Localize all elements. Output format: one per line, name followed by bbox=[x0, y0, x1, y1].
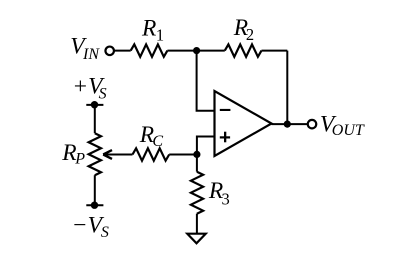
svg-text:3: 3 bbox=[222, 190, 230, 209]
svg-text:C: C bbox=[152, 133, 163, 150]
svg-text:S: S bbox=[101, 224, 109, 241]
svg-text:1: 1 bbox=[156, 26, 164, 45]
svg-text:IN: IN bbox=[82, 46, 100, 63]
svg-text:R: R bbox=[61, 140, 76, 166]
svg-text:R: R bbox=[141, 15, 156, 41]
svg-text:P: P bbox=[74, 151, 85, 168]
svg-text:2: 2 bbox=[246, 25, 254, 44]
svg-text:S: S bbox=[99, 86, 107, 103]
svg-text:OUT: OUT bbox=[332, 122, 365, 139]
svg-text:−V: −V bbox=[72, 212, 105, 238]
